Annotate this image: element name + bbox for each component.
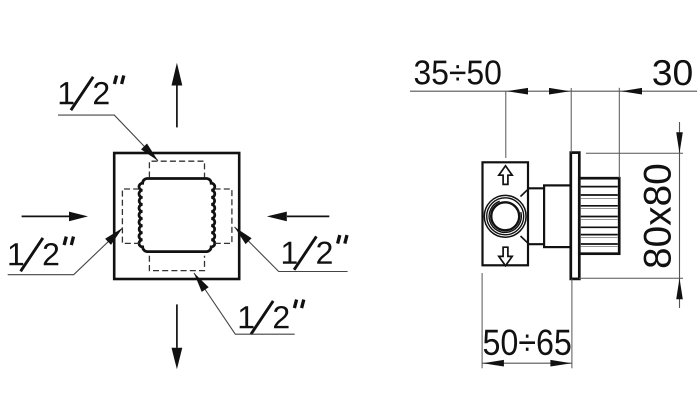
front view: threaded valve body (wavy square): [139, 179, 215, 252]
dimension 50÷65: [482, 273, 572, 368]
stem section 1: [529, 188, 544, 244]
wall flange plate: [571, 153, 580, 279]
side view: hot/cold up arrow (outline): [499, 166, 512, 185]
front view: wall plate 80x80 square: [114, 153, 239, 279]
stem section 2: [544, 185, 571, 247]
outlet flow arrow up: [172, 63, 183, 128]
chamfer top: [521, 188, 530, 196]
chamfer bottom: [521, 236, 530, 244]
inlet flow arrow right (pointing left): [267, 212, 330, 222]
side view: valve body: [483, 162, 529, 265]
bottom 1/2 inch port (dashed): [149, 256, 204, 271]
dimension 80x80: [579, 122, 683, 308]
handle knob: [579, 178, 619, 254]
label 1/2" top-left with leader: [58, 76, 158, 161]
label 1/2" bottom with leader: [194, 273, 304, 334]
top 1/2 inch port (dashed): [149, 161, 204, 177]
side view: cartridge circles: [484, 195, 526, 237]
dimension 30: [619, 60, 691, 178]
knob ribs: [581, 187, 618, 247]
inlet flow arrow left (pointing right): [22, 212, 88, 222]
left 1/2 inch port (dashed): [122, 189, 139, 243]
side view: down arrow (outline): [499, 247, 512, 266]
dimension 35÷50: [410, 60, 697, 158]
outlet flow arrow down: [172, 304, 183, 369]
right 1/2 inch port (dashed): [215, 189, 232, 243]
label 1/2" bottom-left with leader: [8, 228, 123, 275]
label 1/2" right with leader: [235, 227, 348, 272]
